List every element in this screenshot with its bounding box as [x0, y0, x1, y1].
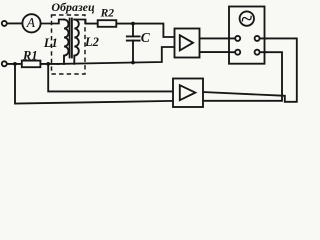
wire amp1 upper output to generator box left top terminal — [200, 37, 231, 39]
wire upper-right terminal to outer right vertical down to bottom staircase into amp2 upper output — [203, 38, 297, 101]
input terminal lower — [2, 61, 7, 66]
junction node on R1 rail after R1 — [46, 62, 50, 66]
svg-text:A: A — [26, 15, 36, 30]
generator box right terminal stubs — [260, 38, 266, 52]
generator G1 circle — [240, 11, 254, 25]
svg-text:R1: R1 — [22, 48, 38, 62]
svg-text:L1: L1 — [43, 36, 58, 50]
junction node capacitor top — [131, 22, 135, 26]
transformer T1 secondary winding L2 — [74, 20, 79, 64]
transformer T1 core — [70, 19, 72, 58]
capacitor C1 plates — [127, 36, 140, 40]
svg-text:R2: R2 — [100, 8, 115, 20]
wire amp1 lower output to generator box left bottom terminal — [200, 51, 231, 53]
generator unit box — [229, 7, 265, 64]
transformer T1 primary winding L1 — [64, 20, 69, 64]
switch terminal right-bottom — [255, 50, 260, 55]
switch terminal left-top — [235, 36, 240, 41]
wire top rail from input terminal to ammeter — [7, 22, 23, 24]
ammeter A circle — [22, 14, 40, 32]
wire ammeter to transformer primary top with jog up — [40, 20, 64, 24]
switch terminal right-top — [255, 36, 260, 41]
generator G1 sine symbol — [241, 14, 252, 23]
dashed sample box — [52, 15, 86, 74]
resistor R2 body — [98, 20, 117, 27]
wire secondary bottom rail to amp1 lower input jog — [58, 47, 175, 64]
wire lower-right terminal down right side to amp2 lower output — [203, 52, 282, 101]
wire bottom rail R1 row — [7, 63, 58, 65]
input terminal upper — [2, 21, 7, 26]
amplifier U1 box — [175, 29, 200, 58]
wire feedback from node before R1 down along bottom to amp2 lower input — [15, 64, 173, 104]
amplifier U2 box — [173, 79, 203, 108]
svg-text:L2: L2 — [84, 35, 99, 49]
wire feedback from node after R1 down to amp2 upper input — [48, 64, 173, 92]
capacitor C1 bottom lead — [132, 41, 134, 63]
amplifier U2 triangle — [180, 85, 196, 100]
generator box left terminal stubs — [229, 38, 235, 52]
amplifier U1 triangle — [180, 35, 193, 50]
wire R2 to capacitor node to amp1 upper input jog — [116, 24, 174, 37]
junction node capacitor bottom — [131, 61, 135, 65]
svg-text:C: C — [141, 30, 151, 45]
svg-text:Образец: Образец — [51, 0, 95, 14]
switch terminal left-bottom — [235, 50, 240, 55]
junction node on R1 rail before R1 — [13, 62, 17, 66]
resistor R1 body — [22, 61, 41, 68]
capacitor C1 top lead — [132, 24, 134, 37]
wire secondary top lead to R2 — [74, 20, 97, 24]
